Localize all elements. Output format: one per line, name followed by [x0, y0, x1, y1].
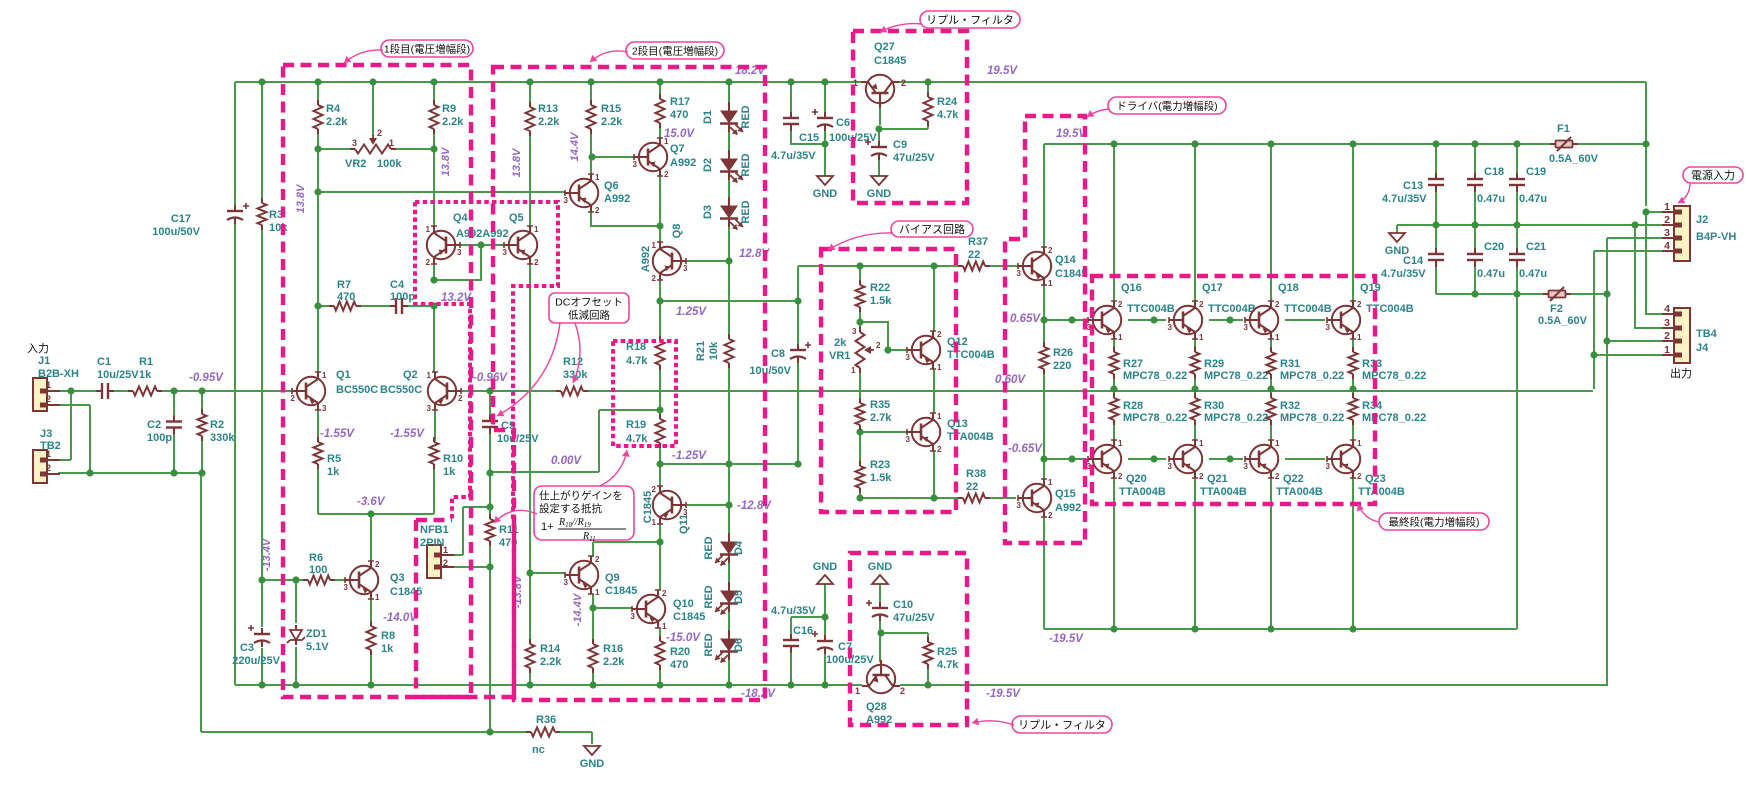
wire R24 bottom — [927, 121, 929, 129]
svg-text:Q17: Q17 — [1202, 282, 1223, 294]
wire — [1645, 82, 1647, 206]
svg-text:3: 3 — [344, 583, 349, 592]
junction — [587, 78, 594, 85]
LED D6 — [715, 630, 738, 663]
svg-text:3: 3 — [352, 138, 357, 148]
svg-text:R20: R20 — [670, 646, 690, 658]
transistor Q23 — [1327, 440, 1360, 478]
transistor Q1 — [292, 372, 325, 410]
junction — [170, 469, 177, 476]
capacitor C6 — [817, 117, 833, 119]
junction — [1631, 221, 1638, 228]
svg-text:Q21: Q21 — [1207, 473, 1228, 485]
wire Q4 emitter loop — [434, 245, 481, 280]
transistor Q3 — [345, 561, 378, 599]
svg-text:リプル・フィルタ: リプル・フィルタ — [1018, 719, 1106, 732]
svg-text:2: 2 — [1118, 300, 1123, 309]
svg-text:リプル・フィルタ: リプル・フィルタ — [926, 14, 1014, 27]
wire C16-C7 link — [791, 616, 825, 618]
wire C8 top — [797, 301, 799, 345]
svg-text:Q3: Q3 — [390, 572, 405, 584]
wire — [261, 580, 263, 627]
svg-text:R29: R29 — [1204, 358, 1224, 370]
wire J2 pin1 — [1646, 211, 1663, 213]
svg-text:1: 1 — [1199, 439, 1204, 448]
svg-text:-19.5V: -19.5V — [1049, 633, 1084, 645]
wire — [234, 82, 236, 208]
capacitor C16 — [783, 639, 799, 641]
junction — [430, 78, 437, 85]
wire VR1 bottom/R35 top — [859, 368, 861, 402]
wire R34 bottom — [1352, 421, 1354, 440]
svg-text:3: 3 — [1244, 462, 1249, 471]
svg-text:VR2: VR2 — [345, 158, 366, 170]
svg-text:2: 2 — [46, 463, 51, 473]
svg-text:22: 22 — [966, 481, 978, 493]
wire NFB1 pin2 — [441, 566, 490, 568]
stage box ripple filter bottom — [850, 553, 967, 725]
svg-text:J2: J2 — [1696, 214, 1708, 226]
svg-text:C13: C13 — [1403, 180, 1423, 192]
wire — [201, 391, 203, 413]
wire — [1352, 339, 1354, 351]
svg-text:1段目(電圧増幅段): 1段目(電圧増幅段) — [384, 43, 470, 56]
resistor R21 — [725, 339, 734, 363]
svg-text:-14.4V: -14.4V — [572, 592, 584, 626]
junction — [589, 604, 596, 611]
svg-text:2: 2 — [443, 558, 448, 568]
svg-text:3: 3 — [1326, 462, 1331, 471]
junction — [1267, 140, 1274, 147]
wire — [489, 432, 491, 472]
wire to TB4 pin4 — [1646, 212, 1663, 314]
svg-text:R32: R32 — [1280, 400, 1300, 412]
wire C14 bottom — [1435, 265, 1437, 294]
svg-text:3: 3 — [503, 248, 508, 257]
svg-text:2: 2 — [652, 274, 657, 283]
transistor Q22 — [1245, 440, 1278, 478]
wire Q28 base — [879, 633, 881, 662]
junction — [725, 460, 732, 467]
wire Q11 side — [686, 504, 729, 506]
svg-text:MPC78_0.22: MPC78_0.22 — [1123, 412, 1187, 424]
ground — [584, 746, 600, 755]
junction — [1432, 221, 1439, 228]
svg-text:1: 1 — [595, 588, 600, 597]
wire to R24 — [879, 128, 928, 130]
transistor Q17 — [1169, 301, 1202, 339]
svg-text:A992: A992 — [604, 193, 630, 205]
capacitor C7 — [817, 640, 833, 642]
junction — [856, 494, 863, 501]
LED D4 — [715, 533, 738, 566]
svg-text:3: 3 — [1017, 501, 1022, 510]
stage box DC offset lower (NFB) — [416, 520, 514, 697]
svg-text:2PIN: 2PIN — [420, 537, 445, 549]
wire R21 column — [728, 363, 730, 464]
wire Q12 collector — [933, 266, 935, 331]
svg-text:1k: 1k — [443, 466, 456, 478]
svg-text:C16: C16 — [793, 625, 813, 637]
wire — [529, 82, 531, 107]
svg-text:2.2k: 2.2k — [540, 656, 562, 668]
resistor R13 — [526, 107, 535, 131]
svg-text:2.7k: 2.7k — [870, 412, 892, 424]
wire Q17 collector — [1194, 144, 1196, 301]
svg-text:2: 2 — [1357, 472, 1362, 481]
svg-text:R23: R23 — [870, 459, 890, 471]
svg-text:19.5V: 19.5V — [1056, 128, 1087, 140]
svg-text:ドライバ(電力増幅段): ドライバ(電力増幅段) — [1116, 100, 1217, 113]
junction — [1642, 140, 1649, 147]
svg-text:4.7u/35V: 4.7u/35V — [1382, 193, 1427, 205]
wire R18 bottom — [659, 365, 661, 410]
junction — [787, 681, 794, 688]
svg-text:TTC004B: TTC004B — [1284, 303, 1332, 315]
wire R20 column — [659, 665, 661, 685]
wire 1.25V line — [660, 300, 798, 302]
wire -3.6V line — [318, 513, 434, 515]
junction — [725, 257, 732, 264]
junction — [1513, 290, 1520, 297]
svg-text:4.7u/35V: 4.7u/35V — [1381, 268, 1426, 280]
wire Q13 collector — [933, 451, 935, 498]
wire -1.25V line — [660, 463, 798, 465]
junction — [369, 78, 376, 85]
svg-text:GND: GND — [813, 188, 838, 200]
wire — [659, 464, 661, 488]
resistor R15 — [587, 105, 596, 129]
svg-text:13.8V: 13.8V — [295, 183, 307, 213]
wire — [555, 731, 592, 733]
wire Q6 emitter — [591, 212, 660, 226]
resistor R35 — [856, 403, 865, 425]
transistor Q4 — [427, 226, 460, 264]
svg-text:Q10: Q10 — [673, 598, 694, 610]
transistor Q21 — [1169, 440, 1202, 478]
wire — [728, 561, 730, 584]
wire C2 column — [173, 432, 175, 473]
junction — [1603, 290, 1610, 297]
svg-text:MPC78_0.22: MPC78_0.22 — [1204, 412, 1268, 424]
wire R25 top — [927, 633, 929, 641]
wire — [728, 226, 730, 261]
junction — [170, 387, 177, 394]
wire C10 GND — [879, 584, 881, 603]
svg-text:R34: R34 — [1362, 400, 1383, 412]
wire +19.5V rail — [899, 81, 1646, 83]
resistor R23 — [856, 466, 865, 488]
svg-text:TTC004B: TTC004B — [1127, 303, 1175, 315]
wire C8 bottom — [797, 362, 799, 464]
wire C15 bottom — [791, 130, 825, 144]
junction — [787, 78, 794, 85]
wire — [157, 390, 292, 392]
wire — [489, 472, 491, 514]
capacitor C20 — [1467, 253, 1483, 255]
wire R27 bottom — [1113, 375, 1115, 389]
svg-text:2k: 2k — [834, 337, 847, 349]
wire to Q10 — [659, 542, 661, 590]
wire C9 top — [878, 129, 880, 142]
junction — [856, 428, 863, 435]
wire C14 top — [1435, 225, 1437, 249]
resistor R38 — [963, 494, 985, 503]
wire — [109, 390, 133, 392]
svg-text:C9: C9 — [893, 139, 907, 151]
svg-text:R10: R10 — [443, 453, 463, 465]
svg-text:2.2k: 2.2k — [603, 656, 625, 668]
capacitor C8 — [790, 349, 806, 351]
svg-text:Q1: Q1 — [336, 369, 351, 381]
transistor Q15 — [1018, 479, 1051, 517]
svg-text:ZD1: ZD1 — [306, 628, 327, 640]
svg-text:4.7k: 4.7k — [626, 433, 648, 445]
wire — [1285, 319, 1325, 321]
svg-text:C1845: C1845 — [673, 611, 705, 623]
wire — [598, 410, 600, 472]
junction — [486, 387, 493, 394]
svg-text:220u/25V: 220u/25V — [232, 655, 280, 667]
wire — [433, 465, 435, 514]
wire — [370, 514, 372, 561]
resistor R31 — [1267, 352, 1276, 374]
svg-text:3: 3 — [852, 327, 857, 336]
resistor R24 — [924, 97, 933, 121]
stage box 1st stage — [283, 65, 471, 697]
stage box bias — [821, 249, 956, 512]
junction — [725, 681, 732, 688]
svg-text:NFB1: NFB1 — [420, 524, 449, 536]
wire — [659, 82, 661, 98]
wire C5 top — [489, 391, 491, 416]
wire Q15 emitter — [1043, 459, 1045, 479]
resistor R27 — [1110, 352, 1119, 374]
wire R23 bottom — [859, 489, 861, 498]
junction — [1110, 385, 1117, 392]
resistor R3 — [258, 203, 267, 225]
callout ripple filter top — [920, 11, 1020, 28]
wire VR2 wiper — [372, 82, 374, 136]
LED D1 — [720, 102, 743, 135]
svg-text:R17: R17 — [670, 96, 690, 108]
svg-text:2: 2 — [375, 560, 380, 569]
wire -19.5V feed rail — [1436, 293, 1544, 295]
wire -19.5V rail — [1044, 628, 1517, 630]
svg-text:Q7: Q7 — [670, 143, 685, 155]
capacitor C9 — [871, 146, 887, 148]
junction — [821, 681, 828, 688]
svg-text:MPC78_0.22: MPC78_0.22 — [1280, 412, 1344, 424]
wire Q15 collector — [1043, 517, 1045, 629]
wire Q7 base — [591, 156, 639, 158]
ground — [872, 575, 888, 584]
wire to R25 — [880, 632, 928, 634]
capacitor C1 — [101, 383, 103, 399]
junction — [656, 460, 663, 467]
wire NFB ground column — [489, 567, 491, 732]
capacitor C18 — [1467, 178, 1483, 180]
wire Q16 emitter — [1113, 339, 1115, 351]
svg-text:3: 3 — [1168, 462, 1173, 471]
svg-text:C1845: C1845 — [874, 55, 906, 67]
zener ZD1 — [287, 625, 305, 645]
svg-text:Q2: Q2 — [403, 369, 418, 381]
wire — [234, 220, 236, 685]
junction — [486, 563, 493, 570]
junction — [1226, 316, 1233, 323]
svg-text:J3: J3 — [40, 428, 52, 440]
junction — [1110, 140, 1117, 147]
svg-text:RED: RED — [703, 536, 715, 559]
wire GND mid rail — [1397, 224, 1663, 226]
fuse F1 — [1550, 137, 1578, 151]
svg-text:3: 3 — [1244, 323, 1249, 332]
callout 2nd stage — [626, 42, 724, 59]
wire Q6 collector — [590, 157, 592, 174]
svg-text:22: 22 — [968, 249, 980, 261]
junction — [1150, 455, 1157, 462]
svg-text:2: 2 — [1275, 472, 1280, 481]
wire Q12-Q13 emitters — [933, 369, 935, 413]
svg-text:3: 3 — [1326, 323, 1331, 332]
svg-text:470: 470 — [670, 659, 688, 671]
wire — [728, 464, 730, 505]
resistor VR2 — [355, 145, 391, 154]
wire GND stub — [1396, 225, 1398, 233]
wire R11 column — [489, 546, 491, 567]
resistor R8 — [367, 626, 376, 650]
svg-text:R2: R2 — [210, 419, 224, 431]
resistor R37 — [963, 262, 985, 271]
svg-text:C20: C20 — [1484, 241, 1504, 253]
svg-text:5.1V: 5.1V — [306, 641, 329, 653]
svg-text:1: 1 — [937, 412, 942, 421]
wire — [463, 506, 490, 508]
transistor Q8 — [653, 242, 686, 280]
junction — [314, 145, 321, 152]
svg-text:R25: R25 — [937, 646, 957, 658]
wire C9 bottom — [878, 158, 880, 176]
svg-text:3: 3 — [633, 160, 638, 169]
svg-text:47u/25V: 47u/25V — [893, 152, 935, 164]
wire -19.5V lower rail — [900, 684, 1607, 686]
wire R19 top — [659, 410, 661, 419]
wire R34 top — [1352, 389, 1354, 397]
junction — [656, 538, 663, 545]
svg-text:1: 1 — [1199, 333, 1204, 342]
capacitor C15 — [783, 117, 799, 119]
svg-text:電源入力: 電源入力 — [1691, 168, 1735, 182]
wire R28 top — [1113, 389, 1115, 397]
wire R24 top — [927, 82, 929, 97]
transistor Q7 — [634, 138, 667, 176]
wire R14 column — [529, 668, 531, 685]
junction — [1471, 290, 1478, 297]
wire ground run — [201, 731, 531, 733]
junction — [589, 681, 596, 688]
svg-text:nc: nc — [532, 744, 545, 756]
wire Q2 collector — [433, 306, 435, 372]
junction — [656, 406, 663, 413]
junction — [821, 78, 828, 85]
svg-text:0.60V: 0.60V — [995, 374, 1026, 386]
wire — [317, 465, 319, 514]
wire Q22 collector — [1270, 478, 1272, 629]
svg-text:R30: R30 — [1204, 400, 1224, 412]
svg-text:10k: 10k — [269, 222, 288, 234]
svg-text:RED: RED — [703, 633, 715, 656]
svg-text:-14.0V: -14.0V — [383, 612, 418, 624]
wire — [317, 129, 319, 306]
wire — [934, 497, 962, 499]
svg-text:10k: 10k — [708, 341, 720, 360]
junction — [1590, 351, 1597, 358]
junction — [1040, 316, 1047, 323]
resistor R30 — [1191, 398, 1200, 420]
wire — [462, 507, 464, 555]
wire — [317, 408, 319, 441]
svg-text:100u/50V: 100u/50V — [152, 226, 200, 238]
wire J2 pin3 / -19.5V column — [1606, 238, 1608, 686]
wire R28 bottom — [1113, 421, 1115, 440]
junction — [430, 276, 437, 283]
svg-text:2: 2 — [291, 394, 296, 403]
wire Q7 emitter — [659, 176, 661, 226]
transistor Q6 — [565, 174, 598, 212]
junction — [67, 387, 74, 394]
wire C19 top — [1516, 144, 1518, 174]
svg-text:Q14: Q14 — [1055, 254, 1077, 266]
wire Q18 collector — [1270, 144, 1272, 301]
junction — [856, 318, 863, 325]
wire Q6 base — [318, 191, 565, 193]
wire R6 to Q3 — [331, 579, 345, 581]
capacitor C10 — [872, 607, 888, 609]
svg-text:Q11: Q11 — [678, 514, 690, 534]
junction — [1513, 221, 1520, 228]
svg-text:15.0V: 15.0V — [664, 128, 695, 140]
transistor Q14 — [1018, 247, 1051, 285]
ground — [817, 176, 833, 185]
wire R37 to Q14 — [986, 265, 1018, 267]
svg-text:1: 1 — [855, 686, 860, 696]
junction — [924, 78, 931, 85]
wire +19.5V driver rail — [1044, 143, 1551, 145]
resistor R17 — [656, 99, 665, 123]
junction — [314, 188, 321, 195]
svg-text:MPC78_0.22: MPC78_0.22 — [1123, 370, 1187, 382]
junction — [588, 153, 595, 160]
wire R8 column — [370, 651, 372, 685]
svg-text:-15.0V: -15.0V — [666, 632, 701, 644]
junction — [1191, 385, 1198, 392]
svg-text:330k: 330k — [210, 432, 235, 444]
connector NFB1 — [427, 545, 454, 578]
resistor R1 — [133, 387, 157, 396]
wire to VR1 wiper — [860, 322, 888, 350]
wire ground drop — [200, 473, 202, 732]
svg-text:2: 2 — [595, 555, 600, 564]
junction — [821, 613, 828, 620]
wire Q10 base — [593, 607, 632, 609]
wire Q9 base — [530, 572, 565, 574]
svg-text:GND: GND — [813, 561, 838, 573]
svg-text:D3: D3 — [702, 205, 714, 219]
svg-text:2: 2 — [534, 258, 539, 267]
svg-text:MPC78_0.22: MPC78_0.22 — [1204, 370, 1268, 382]
wire NFB1 pin1 — [441, 554, 463, 556]
